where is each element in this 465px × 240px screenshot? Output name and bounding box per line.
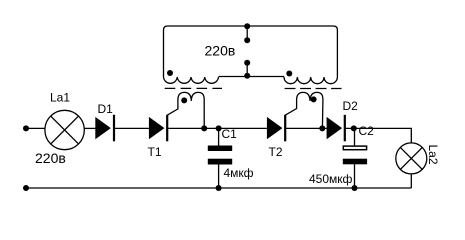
svg-text:C1: C1 [222,127,238,141]
svg-text:220в: 220в [205,42,236,58]
svg-text:T2: T2 [269,145,283,159]
svg-text:4мкф: 4мкф [224,166,254,180]
svg-text:D1: D1 [98,102,114,116]
svg-text:450мкф: 450мкф [309,172,353,186]
svg-text:La2: La2 [426,145,440,165]
svg-text:220в: 220в [35,150,66,166]
svg-text:T1: T1 [148,145,162,159]
svg-text:D2: D2 [343,99,359,113]
svg-text:C2: C2 [359,124,375,138]
svg-text:La1: La1 [50,91,70,105]
